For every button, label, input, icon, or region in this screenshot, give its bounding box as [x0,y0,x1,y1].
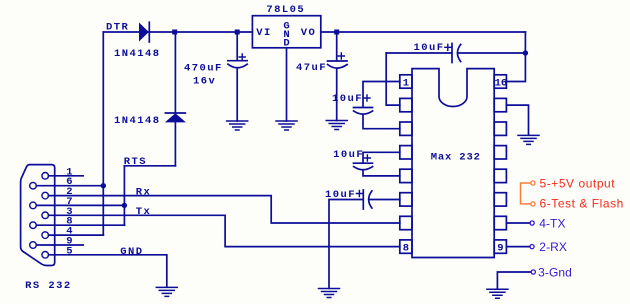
svg-text:Max 232: Max 232 [431,152,481,164]
pin box 14 [494,122,506,135]
wire DB9 pin 3 Tx run to MAX232 pin8 [49,215,400,246]
svg-text:8: 8 [403,243,409,255]
capacitor C4 plus sign [364,95,370,101]
pin box 1 [400,75,412,88]
pin box 3 [400,122,412,135]
wire DB9 pin 9 stub [36,244,83,246]
diode D2 cathode bar [165,112,185,114]
connector pin circle 9 [30,242,37,249]
diode D2 1N4148 (vertical, pointing up) [165,113,186,122]
wire MAX232 pin9 to RX terminal [507,246,530,248]
wire DTR vertical from top rail to DB9 pin4 row [102,32,104,235]
svg-text:78L05: 78L05 [266,4,305,16]
node junction top rail to C1 470uF [235,30,240,35]
svg-text:5: 5 [66,245,74,257]
wire DB9 pin 6 to DTR line [36,185,103,187]
pin box 13 [494,146,506,159]
svg-text:GND: GND [120,246,143,258]
node junction C3 top cap to pin16 rail [523,50,528,55]
pin box 2 [400,98,412,111]
svg-text:1: 1 [403,77,409,89]
svg-text:9: 9 [497,243,503,255]
pin box 10 [494,216,506,229]
capacitor C6 10uF from pin 6 to ground [329,190,400,288]
svg-text:10uF: 10uF [325,189,356,201]
svg-text:3-Gnd: 3-Gnd [538,265,572,279]
wire right rail down to MAX232 pin16 [507,32,526,82]
svg-text:1N4148: 1N4148 [114,115,161,127]
svg-text:2-RX: 2-RX [539,240,567,254]
capacitor C5 10uF between pins 4 and 5 [354,152,400,176]
wire VO output rail to right [321,31,526,33]
pin box 11 [494,193,506,206]
svg-text:10uF: 10uF [333,149,364,161]
wire DB9 pin 2 Rx run to MAX232 pin7 [49,196,400,223]
svg-text:47uF: 47uF [296,62,327,74]
node terminal circle 6-Test [531,202,535,206]
annotation bracket for +5V/Test terminals [521,183,531,204]
wire DB9 pin 7 to RTS line [36,204,124,206]
svg-text:6-Test & Flash: 6-Test & Flash [540,196,624,210]
capacitor C1 plus sign [239,54,245,60]
ground below C1 [227,121,248,130]
node junction at D1 cathode / RTS diode [172,30,177,35]
pin box 8 [400,240,412,253]
pin box 9 [494,240,506,253]
wire RTS horizontal [124,165,175,167]
wire vertical rail to diode D2 and RTS [174,32,176,166]
pin box 4 [400,146,412,159]
connector pin circle 1 [42,173,49,180]
capacitor C1 470uF 16v [228,32,247,121]
svg-text:DTR: DTR [106,22,129,34]
node terminal circle 4-TX [530,221,534,225]
pin box 15 [494,98,506,111]
wire 78L05 GND stem [286,48,288,121]
IC U2 MAX232 body [412,69,494,258]
connector pin circle 8 [30,222,37,229]
svg-text:10uF: 10uF [414,42,445,54]
wire 3-Gnd terminal to ground [497,272,531,289]
pin box 5 [400,169,412,182]
svg-text:5-+5V output: 5-+5V output [540,176,616,190]
svg-text:16v: 16v [193,76,216,88]
ground below 78L05 [276,121,297,130]
pin box 6 [400,193,412,206]
svg-text:1N4148: 1N4148 [114,48,161,60]
svg-text:VI: VI [256,27,272,39]
wire MAX232 pin10 to TX terminal [507,222,531,224]
ground below C2 [326,121,347,130]
diode D1 1N4148 (horizontal) [139,23,149,42]
connector J1 DB9 shell [21,165,55,266]
capacitor C4 10uF between pins 1 and 3 [354,82,400,129]
connector pin circle 6 [30,182,37,189]
node junction rail to C2 47uF [334,30,339,35]
ground for DB9 GND [156,287,177,296]
svg-text:16: 16 [495,77,508,89]
wire DB9 pin 1 stub [49,175,84,177]
svg-text:VO: VO [301,27,317,39]
wire MAX232 pin15 to ground [507,105,529,135]
svg-text:10uF: 10uF [332,93,363,105]
capacitor C3 plus sign [445,44,451,50]
svg-text:RTS: RTS [124,156,147,168]
wire C3 left down to MAX232 pin2 [386,53,400,105]
capacitor C3 10uF (top, horizontal) [386,44,525,63]
node terminal circle 5-+5V [531,181,535,185]
ground below C6 [319,289,340,298]
wire DB9 pin 5 GND run [49,255,167,287]
wire top rail DTR to 78L05 VI [103,31,252,33]
svg-text:4-TX: 4-TX [539,216,565,230]
connector pin circle 4 [42,232,49,239]
capacitor C2 47uF [328,32,348,121]
svg-text:Rx: Rx [136,186,152,198]
node terminal circle 3-Gnd [531,270,535,274]
wire RTS vertical down to DB9 rows [123,166,125,225]
svg-text:470uF: 470uF [184,63,223,75]
pin box 7 [400,216,412,229]
svg-text:Tx: Tx [136,206,152,218]
wire DB9 pin 4 stub to DTR vertical [49,234,104,236]
pin box 12 [494,169,506,182]
connector pin circle 5 [42,252,49,259]
capacitor C2 plus sign [338,53,344,59]
wire DB9 pin 8 stub to RTS vertical [36,224,124,226]
connector pin circle 3 [42,212,49,219]
node terminal circle 2-RX [530,245,534,249]
node junction DTR/DSR [101,183,106,188]
diode D1 cathode bar [148,22,150,42]
pin box 16 [494,75,506,88]
ground for 3-Gnd [487,289,508,298]
capacitor C5 plus sign [364,155,370,161]
ground for pin15 [518,135,539,144]
connector pin circle 7 [30,202,37,209]
capacitor C6 plus sign [356,191,362,197]
svg-text:RS 232: RS 232 [25,280,72,292]
node junction RTS/pin7 [122,203,127,208]
op-amp U1 78L05 regulator box [252,16,320,48]
connector pin circle 2 [42,192,49,199]
